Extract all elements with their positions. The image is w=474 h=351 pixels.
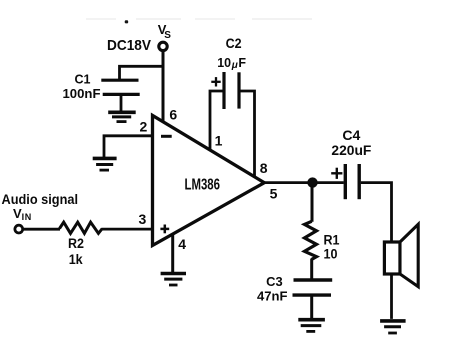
label 10uF	[217, 56, 246, 71]
svg-text:C2: C2	[226, 36, 242, 51]
faint artifact line 3	[195, 18, 235, 20]
wire output pin 5 to C4	[263, 181, 344, 184]
wire pin 8 to C2	[239, 91, 255, 177]
wire pin 4 to ground	[171, 234, 174, 273]
faint artifact line 4	[252, 18, 312, 20]
svg-text:100nF: 100nF	[63, 87, 101, 101]
svg-text:10: 10	[324, 247, 338, 262]
svg-text:6: 6	[169, 106, 177, 122]
svg-text:F: F	[238, 56, 246, 70]
wire pin 2	[104, 136, 153, 158]
svg-text:2: 2	[140, 119, 148, 135]
label VS	[158, 22, 172, 41]
svg-text:1k: 1k	[69, 252, 83, 267]
capacitor C1 top plate	[101, 79, 138, 82]
ground pin 4	[161, 274, 186, 286]
svg-text:DC18V: DC18V	[107, 37, 151, 54]
stray dot artifact top	[125, 20, 129, 23]
capacitor C4 right plate	[358, 164, 361, 199]
input terminal circle	[15, 225, 23, 233]
op-amp U1 LM386 triangle	[153, 115, 265, 245]
capacitor C4 left plate	[344, 164, 347, 199]
capacitor C3 top plate	[294, 278, 333, 281]
svg-text:10: 10	[217, 56, 231, 70]
wire pin 1 to C2	[210, 91, 224, 151]
svg-text:C4: C4	[342, 128, 361, 143]
faint artifact line 1	[86, 18, 116, 20]
resistor R1	[305, 221, 317, 259]
minus sign pin 2 input	[161, 135, 172, 138]
ground C3	[298, 320, 325, 332]
wire R2 to pin 3	[102, 228, 153, 231]
wire branch to C1	[120, 66, 165, 79]
svg-text:C3: C3	[266, 275, 283, 289]
wire C3 to ground	[310, 297, 313, 319]
capacitor C2 left plate	[222, 72, 225, 109]
svg-text:1: 1	[215, 133, 223, 149]
svg-text:IN: IN	[22, 212, 32, 222]
resistor R2	[60, 222, 103, 233]
svg-text:μ: μ	[231, 60, 238, 71]
wire R1 to C3	[310, 259, 313, 279]
speaker LS1 box	[384, 242, 400, 274]
ground C1	[108, 112, 136, 121]
wire C4 to speaker	[361, 183, 392, 242]
ground pin 2	[93, 158, 117, 170]
capacitor C2 right plate	[237, 72, 240, 108]
svg-text:220uF: 220uF	[331, 143, 371, 158]
svg-text:Audio signal: Audio signal	[2, 191, 79, 207]
junction node dot	[307, 177, 317, 187]
svg-text:47nF: 47nF	[257, 289, 288, 303]
supply terminal VS circle	[159, 42, 167, 50]
svg-text:8: 8	[260, 160, 268, 176]
plus sign pin 3 input	[160, 225, 169, 234]
plus sign C2	[211, 77, 220, 86]
svg-text:4: 4	[178, 236, 186, 252]
svg-text:3: 3	[139, 211, 147, 227]
label VIN	[13, 206, 32, 222]
wire speaker to ground	[390, 274, 393, 319]
ground speaker	[380, 321, 406, 333]
svg-text:LM386: LM386	[185, 176, 221, 193]
svg-text:R2: R2	[68, 236, 84, 251]
wire C1 to ground	[120, 96, 123, 112]
speaker LS1 horn	[400, 224, 418, 286]
capacitor C1 bottom plate	[103, 93, 140, 96]
svg-text:5: 5	[270, 186, 278, 202]
faint artifact line 2	[136, 18, 181, 20]
svg-text:R1: R1	[324, 233, 340, 248]
wire input to R2	[23, 228, 60, 231]
svg-text:S: S	[164, 30, 171, 41]
wire junction to R1	[311, 185, 314, 222]
svg-text:C1: C1	[75, 72, 91, 86]
plus sign C4	[331, 168, 342, 179]
wire VS stem to pin 6	[162, 51, 165, 122]
capacitor C3 bottom plate	[293, 293, 332, 296]
